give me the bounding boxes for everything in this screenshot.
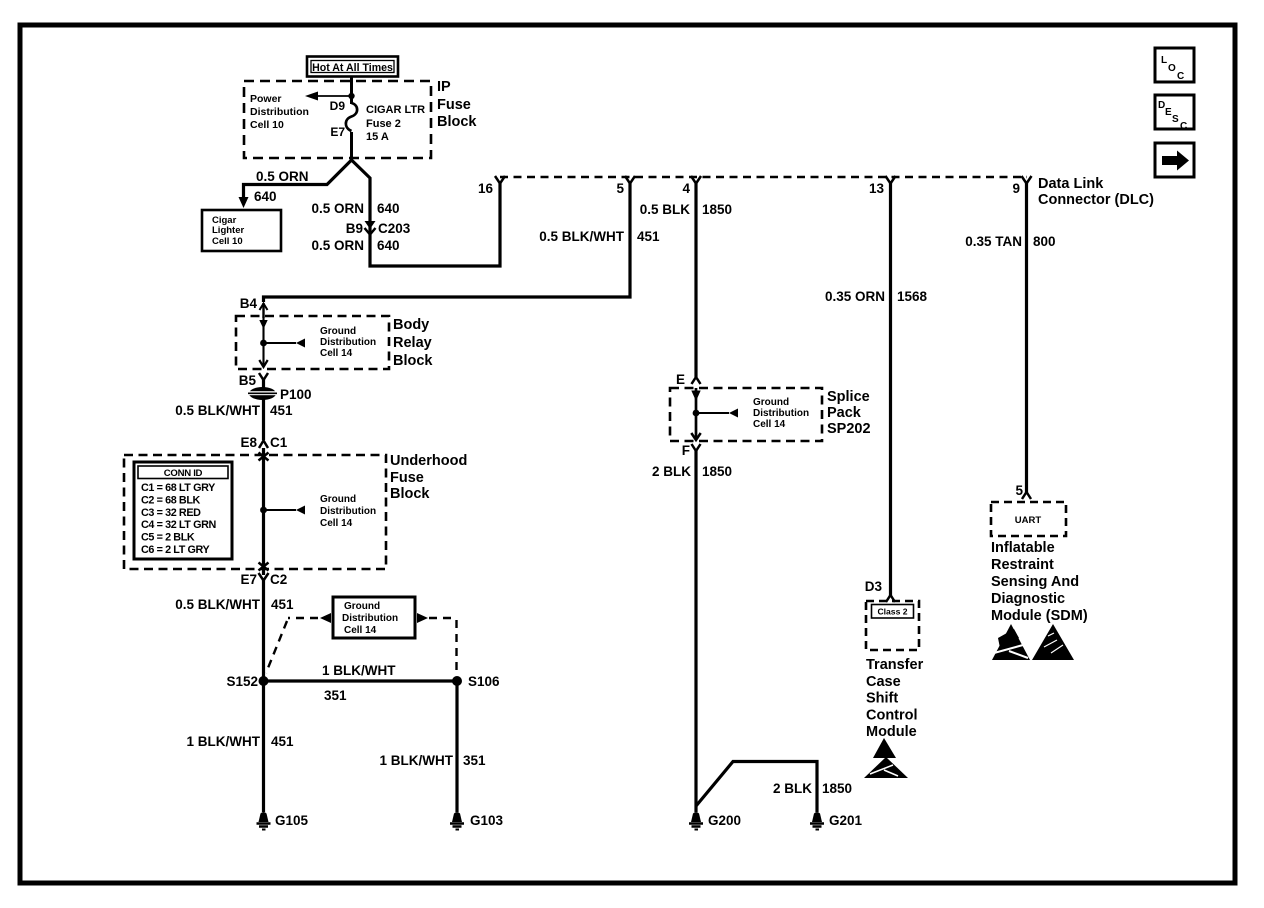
grommet P100	[246, 387, 312, 402]
svg-text:0.5 BLK/WHT: 0.5 BLK/WHT	[539, 229, 625, 244]
wire S152 to S106	[264, 679, 458, 682]
terminal E8 C1	[240, 435, 287, 450]
wire DLC pin 9 to SDM	[1025, 183, 1028, 493]
svg-text:16: 16	[478, 181, 494, 196]
svg-text:Underhood: Underhood	[390, 453, 467, 469]
svg-text:O: O	[1168, 63, 1176, 74]
arrow exiting splice pack	[691, 433, 700, 440]
svg-text:1850: 1850	[702, 202, 732, 217]
svg-text:9: 9	[1012, 181, 1020, 196]
svg-text:C3 = 32 RED: C3 = 32 RED	[141, 507, 201, 519]
svg-text:2 BLK: 2 BLK	[652, 464, 691, 479]
wire S152 to G105	[262, 681, 265, 812]
svg-text:G201: G201	[829, 813, 863, 828]
svg-text:0.5 ORN: 0.5 ORN	[311, 201, 364, 216]
svg-text:800: 800	[1033, 234, 1056, 249]
LOC button	[1155, 48, 1194, 82]
svg-text:B4: B4	[240, 296, 258, 311]
svg-text:Module: Module	[866, 724, 917, 740]
svg-text:Control: Control	[866, 708, 918, 724]
svg-text:451: 451	[637, 229, 660, 244]
svg-text:D9: D9	[330, 99, 346, 113]
cigar lighter reference box	[202, 210, 281, 251]
junction to ground distribution arrow	[260, 506, 305, 515]
svg-text:Cell 14: Cell 14	[344, 625, 377, 636]
svg-text:CONN ID: CONN ID	[164, 468, 203, 479]
terminal E7 C2	[240, 572, 287, 587]
svg-text:Hot At All Times: Hot At All Times	[312, 62, 393, 74]
wire F to G200	[694, 450, 697, 812]
svg-text:0.35 TAN: 0.35 TAN	[965, 234, 1022, 249]
svg-text:E: E	[1165, 107, 1172, 118]
splice S106	[452, 674, 500, 689]
svg-text:4: 4	[682, 181, 690, 196]
svg-text:Distribution: Distribution	[320, 506, 376, 517]
svg-text:E8: E8	[240, 435, 257, 450]
wire inside splice pack	[695, 388, 698, 438]
svg-text:640: 640	[377, 238, 400, 253]
Class 2 dashed box	[866, 601, 919, 650]
svg-text:1 BLK/WHT: 1 BLK/WHT	[187, 734, 261, 749]
terminal B4	[240, 296, 268, 318]
svg-text:SP202: SP202	[827, 421, 871, 437]
ESD caution icons SDM	[992, 624, 1074, 660]
svg-text:Diagnostic: Diagnostic	[991, 591, 1065, 607]
arrow into block	[259, 320, 267, 329]
svg-text:451: 451	[270, 403, 293, 418]
DESC button	[1155, 95, 1194, 132]
arrow exiting block	[259, 360, 267, 367]
svg-text:L: L	[1161, 55, 1167, 66]
svg-text:G105: G105	[275, 813, 309, 828]
svg-text:C5 = 2 BLK: C5 = 2 BLK	[141, 532, 195, 544]
svg-text:Sensing And: Sensing And	[991, 574, 1079, 590]
svg-text:C2: C2	[270, 572, 287, 587]
svg-text:1850: 1850	[702, 464, 732, 479]
svg-text:D3: D3	[865, 579, 883, 594]
wire E7 to S152	[262, 580, 265, 681]
svg-text:Distribution: Distribution	[320, 337, 376, 348]
terminal D3	[865, 579, 895, 602]
svg-text:Ground: Ground	[753, 397, 789, 408]
svg-text:Restraint: Restraint	[991, 557, 1054, 573]
pin 13 terminal	[869, 176, 896, 196]
svg-text:Distribution: Distribution	[753, 408, 809, 419]
svg-text:451: 451	[271, 597, 294, 612]
svg-text:Fuse: Fuse	[437, 97, 471, 113]
terminal E	[676, 372, 701, 387]
wire branch to C203 and DLC pin 16	[352, 160, 501, 266]
svg-text:Class 2: Class 2	[877, 607, 907, 617]
wire inside body relay block	[262, 316, 264, 366]
svg-text:Inflatable: Inflatable	[991, 540, 1055, 556]
svg-text:IP: IP	[437, 79, 451, 95]
svg-text:Lighter: Lighter	[212, 225, 244, 236]
splice S152	[226, 674, 268, 689]
svg-text:Splice: Splice	[827, 389, 870, 405]
pin 5 terminal	[616, 176, 635, 196]
ESD caution icons transfer case	[864, 738, 908, 778]
svg-text:351: 351	[463, 753, 486, 768]
pin 4 terminal	[682, 176, 701, 196]
svg-text:0.35 ORN: 0.35 ORN	[825, 289, 885, 304]
svg-text:Data Link: Data Link	[1038, 176, 1104, 192]
svg-text:Cell 14: Cell 14	[320, 518, 353, 529]
svg-text:B5: B5	[239, 373, 257, 388]
svg-text:15 A: 15 A	[366, 131, 389, 143]
svg-text:Ground: Ground	[320, 326, 356, 337]
pin 16 terminal	[478, 176, 505, 196]
svg-text:351: 351	[324, 688, 347, 703]
svg-text:Cell 14: Cell 14	[320, 348, 353, 359]
svg-text:1850: 1850	[822, 781, 852, 796]
svg-text:640: 640	[254, 189, 277, 204]
pin 9 terminal	[1012, 176, 1031, 196]
svg-text:640: 640	[377, 201, 400, 216]
svg-text:C2 = 68 BLK: C2 = 68 BLK	[141, 494, 201, 506]
wire branch to G201	[696, 762, 817, 813]
svg-text:E7: E7	[330, 125, 345, 139]
svg-text:Block: Block	[390, 486, 430, 502]
svg-text:Case: Case	[866, 674, 901, 690]
svg-text:G200: G200	[708, 813, 741, 828]
arrow into Cigar Lighter	[239, 197, 249, 208]
wire through underhood fuse block	[262, 448, 265, 575]
svg-text:Relay: Relay	[393, 335, 432, 351]
svg-text:Block: Block	[437, 114, 477, 130]
terminal F	[682, 443, 701, 458]
svg-text:Pack: Pack	[827, 405, 862, 421]
svg-text:Body: Body	[393, 317, 429, 333]
svg-text:Cell 14: Cell 14	[753, 419, 786, 430]
wire B5 to E8	[262, 379, 265, 440]
svg-text:5: 5	[1015, 483, 1023, 498]
svg-text:Distribution: Distribution	[250, 106, 309, 118]
svg-text:1 BLK/WHT: 1 BLK/WHT	[322, 663, 396, 678]
svg-text:C1: C1	[270, 435, 288, 450]
connector C203 symbol	[365, 221, 376, 235]
junction to ground distribution arrow	[693, 409, 738, 418]
svg-text:Block: Block	[393, 353, 433, 369]
wire DLC pin 4 to splice pack	[694, 183, 697, 377]
svg-text:451: 451	[271, 734, 294, 749]
svg-text:0.5 BLK/WHT: 0.5 BLK/WHT	[175, 403, 261, 418]
ground G103	[450, 812, 504, 830]
ground G200	[689, 812, 741, 830]
ground distribution cell 14 callout box	[333, 597, 415, 638]
svg-text:C: C	[1180, 121, 1187, 132]
terminal B5	[239, 373, 268, 388]
svg-text:P100: P100	[280, 387, 312, 402]
svg-text:5: 5	[616, 181, 624, 196]
arrow to Power Distribution	[305, 92, 355, 101]
splice pack SP202 dashed box	[670, 388, 822, 441]
svg-text:UART: UART	[1015, 515, 1042, 526]
svg-text:Power: Power	[250, 93, 282, 105]
next page arrow button	[1155, 143, 1194, 177]
svg-text:G103: G103	[470, 813, 504, 828]
svg-text:C1 = 68 LT GRY: C1 = 68 LT GRY	[141, 482, 216, 494]
svg-text:13: 13	[869, 181, 885, 196]
svg-text:Distribution: Distribution	[342, 613, 398, 624]
svg-text:Fuse 2: Fuse 2	[366, 118, 401, 130]
svg-text:E: E	[676, 372, 685, 387]
svg-text:C4 = 32 LT GRN: C4 = 32 LT GRN	[141, 519, 216, 531]
svg-text:B9: B9	[346, 221, 363, 236]
svg-text:Connector (DLC): Connector (DLC)	[1038, 192, 1154, 208]
dashed leader right to S106	[417, 613, 457, 674]
svg-text:Cell 10: Cell 10	[250, 119, 284, 131]
svg-text:Fuse: Fuse	[390, 470, 424, 486]
svg-text:E7: E7	[240, 572, 257, 587]
svg-text:S106: S106	[468, 674, 500, 689]
wire branch to cigar lighter	[244, 160, 352, 200]
svg-text:S: S	[1172, 114, 1179, 125]
svg-text:Transfer: Transfer	[866, 657, 924, 673]
svg-text:S152: S152	[226, 674, 258, 689]
svg-text:0.5 ORN: 0.5 ORN	[311, 238, 364, 253]
underhood fuse block dashed box	[124, 455, 386, 569]
svg-text:CIGAR LTR: CIGAR LTR	[366, 104, 425, 116]
dashed leader left to S152	[266, 613, 331, 673]
arrow into splice pack	[691, 391, 700, 402]
svg-text:C6 = 2 LT GRY: C6 = 2 LT GRY	[141, 544, 210, 556]
svg-text:Module (SDM): Module (SDM)	[991, 608, 1088, 624]
splice x at box bottom	[259, 563, 269, 571]
CONN ID table	[134, 462, 232, 559]
IP fuse block dashed box	[244, 81, 431, 158]
svg-text:Ground: Ground	[344, 601, 380, 612]
svg-text:Shift: Shift	[866, 691, 898, 707]
svg-text:1568: 1568	[897, 289, 928, 304]
junction to ground distribution arrow	[260, 339, 305, 348]
fuse F2 CIGAR LTR symbol	[346, 103, 357, 131]
svg-text:1 BLK/WHT: 1 BLK/WHT	[380, 753, 454, 768]
UART dashed box	[991, 502, 1066, 536]
svg-text:C203: C203	[378, 221, 411, 236]
svg-text:2 BLK: 2 BLK	[773, 781, 812, 796]
svg-text:Cell 10: Cell 10	[212, 236, 243, 247]
wire fuse output	[350, 132, 353, 161]
ground G201	[810, 812, 863, 830]
svg-text:C: C	[1177, 71, 1184, 82]
ground G105	[257, 812, 309, 830]
wire DLC pin 13 to transfer case module	[889, 183, 892, 596]
svg-text:0.5 BLK/WHT: 0.5 BLK/WHT	[175, 597, 261, 612]
Data Link Connector dashed bus	[500, 176, 1027, 179]
splice x at box top	[259, 453, 269, 461]
svg-text:0.5 BLK: 0.5 BLK	[640, 202, 691, 217]
svg-text:Ground: Ground	[320, 494, 356, 505]
svg-text:0.5 ORN: 0.5 ORN	[256, 169, 309, 184]
terminal 5	[1015, 483, 1031, 499]
body relay block dashed box	[236, 316, 389, 369]
svg-text:F: F	[682, 443, 690, 458]
wire DLC pin 5 to B4	[264, 183, 631, 302]
wire from Hot At All Times into fuse block	[350, 76, 353, 104]
wire S106 to G103	[455, 681, 458, 812]
fuse block label Hot At All Times	[307, 57, 398, 77]
